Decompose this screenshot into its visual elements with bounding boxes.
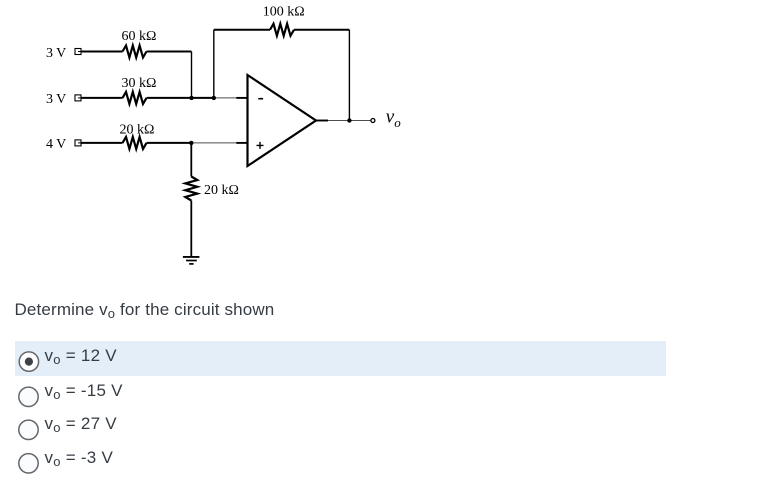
svg-text:3 V: 3 V (46, 92, 66, 107)
svg-text:60 kΩ: 60 kΩ (122, 29, 157, 44)
svg-text:100 kΩ: 100 kΩ (263, 4, 305, 19)
svg-text:30 kΩ: 30 kΩ (122, 76, 157, 91)
svg-text:20 kΩ: 20 kΩ (120, 123, 155, 138)
svg-text:vo: vo (386, 107, 401, 131)
svg-text:20 kΩ: 20 kΩ (204, 183, 239, 198)
svg-text:3 V: 3 V (46, 46, 66, 61)
svg-text:4 V: 4 V (46, 137, 66, 152)
